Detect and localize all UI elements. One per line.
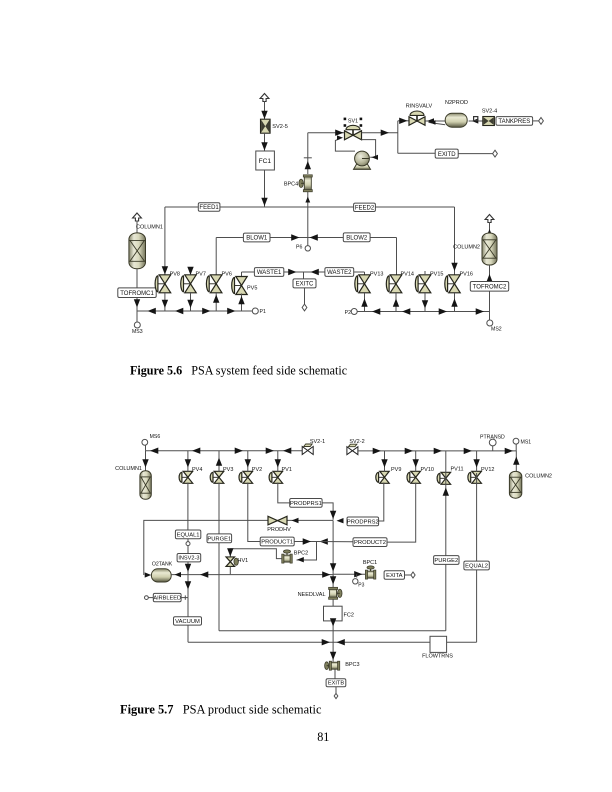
- stream label BLOW1: [243, 233, 270, 242]
- label COLUMN1: [136, 224, 163, 230]
- svg-text:COLUMN2: COLUMN2: [453, 244, 480, 250]
- svg-text:FC2: FC2: [344, 613, 354, 619]
- wire BPC4 riser (SV1 line down to P6): [304, 133, 312, 238]
- stream label EQUAL2: [464, 561, 489, 570]
- valve PV12: [468, 471, 482, 483]
- node MS1: [513, 438, 531, 451]
- wire PV12 from manifold: [473, 451, 479, 472]
- svg-text:PV8: PV8: [170, 271, 180, 277]
- valve HV1: [226, 557, 238, 567]
- svg-text:PRODPRS2: PRODPRS2: [347, 520, 379, 526]
- wire BLOW header: [216, 234, 396, 240]
- wire EQUAL1 to INSV2-3: [187, 546, 189, 554]
- caption Figure 5.7: [120, 703, 322, 717]
- node below EQUAL1: [186, 539, 190, 546]
- controller FC2: [324, 606, 354, 621]
- wire FEED drop to PV8: [162, 207, 168, 275]
- label PV7: [196, 271, 206, 277]
- stream label FEED2: [354, 203, 376, 211]
- wire AIRBLEED to leg: [181, 595, 188, 599]
- label SV2-2: [349, 439, 364, 445]
- wire PV13 to manifold: [361, 292, 367, 312]
- svg-text:MS3: MS3: [132, 329, 143, 335]
- svg-text:BPC1: BPC1: [363, 560, 377, 566]
- label NEEDLVAL: [298, 592, 326, 598]
- svg-text:BLOW1: BLOW1: [246, 236, 268, 242]
- wire FEED drop to PV16: [451, 207, 457, 275]
- wire WASTE stub to PV5: [241, 272, 243, 278]
- label PV13: [370, 271, 383, 277]
- label COLUMN1 (bottom): [115, 466, 142, 472]
- svg-text:PRODHV: PRODHV: [267, 527, 291, 533]
- node MS3: [132, 322, 143, 335]
- wire PRODUCT2 to junction: [317, 541, 354, 543]
- wire PRODUCT1 to junction: [294, 538, 328, 544]
- wire COLUMN2 riser (bottom): [513, 451, 519, 472]
- label PV2: [252, 467, 262, 473]
- svg-text:N2PROD: N2PROD: [445, 100, 468, 106]
- valve BPC1: [365, 566, 376, 579]
- page number: [317, 730, 329, 744]
- svg-text:BPC4: BPC4: [284, 181, 298, 187]
- svg-text:TANKPRES: TANKPRES: [498, 119, 530, 125]
- label PV6: [222, 271, 232, 277]
- wire WASTE stub to PV13: [364, 272, 366, 276]
- svg-text:PV1: PV1: [282, 467, 292, 473]
- wire PRODPRS1 to PRODHV junction: [322, 503, 336, 520]
- svg-text:PV9: PV9: [391, 467, 401, 473]
- wire riser junction at x=398: [397, 121, 399, 154]
- node P1: [252, 308, 266, 315]
- svg-text:PURGE2: PURGE2: [434, 558, 458, 564]
- wire PV16 to manifold: [451, 292, 457, 312]
- wire SV1 bypass loop and pump inlet: [335, 135, 378, 160]
- stream label PRODUCT1: [260, 537, 294, 546]
- wire equalization cross-link (to EQUAL2): [188, 641, 477, 643]
- label O2TANK: [152, 561, 173, 567]
- svg-text:FLOWTRNS: FLOWTRNS: [422, 654, 453, 660]
- svg-text:EXITD: EXITD: [438, 152, 456, 158]
- valve PRODHV: [268, 516, 299, 525]
- meter FLOWTRNS: [422, 636, 453, 659]
- svg-text:MS1: MS1: [521, 439, 532, 445]
- wire FEED header: [165, 206, 455, 208]
- wire COLUMN2 to TOFROMC2: [486, 265, 492, 282]
- label HV1: [238, 558, 249, 564]
- svg-text:81: 81: [317, 730, 329, 744]
- stream label PRODUCT2: [353, 538, 387, 547]
- valve SV2-4: [483, 117, 495, 126]
- svg-text:BPC2: BPC2: [294, 550, 308, 556]
- label RINSVALV: [406, 104, 433, 110]
- label PRODHV: [267, 527, 291, 533]
- svg-text:NEEDLVAL: NEEDLVAL: [298, 592, 326, 598]
- svg-text:MS2: MS2: [491, 327, 502, 333]
- wire EXITC outlet: [302, 288, 307, 311]
- svg-text:COLUMN2: COLUMN2: [525, 473, 552, 479]
- svg-text:PTRANSD: PTRANSD: [480, 435, 505, 441]
- valve SV2-2: [347, 444, 358, 455]
- svg-text:P1: P1: [260, 309, 266, 315]
- svg-text:O2TANK: O2TANK: [152, 561, 173, 567]
- stream label TOFROMC2: [470, 282, 508, 292]
- svg-text:P2: P2: [345, 310, 351, 316]
- node MS6: [142, 434, 160, 445]
- wire BPC3 to EXITB: [334, 670, 336, 679]
- wire TOFROMC2 to MS2: [489, 291, 491, 320]
- valve PV16: [445, 275, 460, 293]
- label PV16: [460, 271, 473, 277]
- column COLUMN2: [482, 233, 497, 265]
- svg-text:PV5: PV5: [247, 285, 257, 291]
- wire product line to BPC1: [333, 571, 366, 577]
- valve PV2: [239, 471, 253, 483]
- svg-text:EXITC: EXITC: [296, 282, 314, 288]
- column COLUMN1: [129, 233, 146, 269]
- label BPC4: [284, 181, 298, 187]
- wire PV14 to manifold: [393, 292, 399, 312]
- label PV9: [391, 467, 401, 473]
- wire WASTE header: [242, 269, 365, 275]
- wire BLOW drop to PV14: [396, 238, 398, 276]
- wire PV2 to PRODUCT1: [248, 483, 260, 542]
- wire BPC2 to HV1: [227, 548, 282, 558]
- wire COLUMN1 to TOFROMC1: [136, 269, 138, 288]
- controller FC1: [256, 151, 275, 170]
- wire NEEDLVAL to FC2: [332, 599, 334, 606]
- stream label EQUAL1: [175, 530, 200, 539]
- svg-text:TOFROMC1: TOFROMC1: [120, 291, 154, 297]
- pump (SV1 bypass): [354, 151, 371, 169]
- stream label EXITA: [384, 571, 404, 580]
- svg-text:PV14: PV14: [401, 271, 414, 277]
- label PV10: [421, 467, 434, 473]
- wire PV15 riser: [422, 271, 428, 312]
- label BPC1: [363, 560, 377, 566]
- svg-text:WASTE1: WASTE1: [257, 270, 282, 276]
- label PV12: [481, 467, 494, 473]
- wire EXITA outlet: [405, 572, 416, 578]
- wire PV8 to manifold: [162, 292, 168, 311]
- svg-text:EXITA: EXITA: [386, 573, 402, 579]
- label PV5: [247, 285, 257, 291]
- wire TOFROMC1 to MS3: [134, 298, 140, 323]
- node MS2: [487, 320, 502, 333]
- svg-text:BLOW2: BLOW2: [346, 236, 368, 242]
- column COLUMN2 (bottom): [509, 471, 521, 498]
- wire right bed manifold: [357, 308, 490, 314]
- svg-text:HV1: HV1: [238, 558, 249, 564]
- wire PV11 from manifold: [445, 451, 447, 473]
- wire PRODUCT2 to PV10: [387, 483, 416, 543]
- node AIRBLEED port: [145, 596, 154, 600]
- svg-text:AIRBLEED: AIRBLEED: [153, 596, 181, 602]
- wire EXITD line: [398, 152, 436, 154]
- stream label WASTE2: [325, 268, 354, 277]
- wire SV2-5 to FC1: [261, 133, 267, 151]
- svg-text:PV6: PV6: [222, 271, 232, 277]
- valve PV3: [210, 471, 224, 483]
- wire PV4 to EQUAL1: [187, 483, 189, 531]
- wire FC2 to exhaust junction: [330, 618, 336, 662]
- wire product manifold left: [146, 445, 303, 454]
- wire junction to PRODPRS2: [337, 518, 344, 523]
- wire EXITC branch: [303, 272, 305, 280]
- wire left bed manifold: [137, 308, 255, 314]
- valve PV13: [355, 275, 370, 293]
- valve PV7: [181, 275, 197, 293]
- valve PV14: [386, 275, 401, 293]
- stream label VACUUM: [174, 617, 202, 625]
- wire BLOW drop to PV6: [215, 238, 217, 276]
- label BPC3: [345, 662, 359, 668]
- wire exhaust junction arrows: [322, 639, 345, 645]
- svg-text:Figure 5.7 PSA product side s: Figure 5.7 PSA product side schematic: [120, 703, 322, 717]
- wire NEEDLVAL junction riser: [330, 520, 336, 574]
- wire SV1 outlet to right header: [362, 130, 398, 136]
- valve PV4: [179, 471, 193, 483]
- stream label PRODPRS2: [347, 517, 379, 526]
- svg-text:P6: P6: [296, 245, 302, 251]
- wire SV2-4 to N2PROD: [469, 117, 484, 124]
- wire PV9 from manifold: [381, 451, 387, 472]
- wire HV1 to product line: [229, 567, 231, 575]
- label BPC2: [294, 550, 308, 556]
- svg-text:VACUUM: VACUUM: [175, 619, 200, 625]
- svg-text:SV2-1: SV2-1: [310, 439, 325, 445]
- label PV14: [401, 271, 414, 277]
- wire RINSVALV feed line: [398, 118, 409, 124]
- svg-text:P3: P3: [358, 583, 364, 589]
- node P2: [345, 309, 358, 316]
- label PV4: [192, 467, 202, 473]
- wire PV6 to manifold: [213, 292, 219, 311]
- svg-text:FEED1: FEED1: [199, 205, 219, 211]
- wire product line to O2TANK: [171, 571, 333, 577]
- svg-text:PRODPRS1: PRODPRS1: [290, 501, 322, 507]
- tank O2TANK: [151, 569, 171, 582]
- valve PV10: [407, 471, 420, 483]
- svg-text:PURGE1: PURGE1: [207, 536, 231, 542]
- valve PV5: [232, 277, 248, 295]
- svg-text:INSV2-3: INSV2-3: [178, 556, 199, 562]
- label PV8: [170, 271, 180, 277]
- label PV3: [223, 467, 233, 473]
- valve PV9: [376, 471, 389, 483]
- svg-text:PRODUCT2: PRODUCT2: [354, 540, 386, 546]
- label PV11: [451, 466, 464, 472]
- stream label EXITC: [293, 279, 316, 288]
- svg-text:PV4: PV4: [192, 467, 202, 473]
- wire FC1 to FEED header: [261, 170, 267, 207]
- wire PV10 from manifold: [413, 451, 419, 472]
- instrument PTRANSD: [480, 435, 505, 451]
- wire PV4 from manifold: [185, 451, 191, 472]
- valve PV15: [415, 275, 430, 293]
- label COLUMN2 (top): [453, 244, 480, 250]
- svg-text:RINSVALV: RINSVALV: [406, 104, 433, 110]
- wire PV1 from manifold: [275, 451, 281, 472]
- wire PV3 to manifold: [216, 451, 222, 472]
- wire TANKPRES outlet: [533, 118, 544, 125]
- wire NEEDLVAL drop: [330, 574, 336, 587]
- svg-text:COLUMN1: COLUMN1: [115, 466, 142, 472]
- stream label EXITD: [435, 149, 458, 158]
- svg-text:PV10: PV10: [421, 467, 434, 473]
- wire EXITB outlet: [334, 687, 338, 699]
- stream label PURGE1: [207, 534, 232, 543]
- stream label FEED1: [198, 203, 220, 211]
- valve BPC2: [282, 550, 293, 563]
- valve PV11: [437, 472, 451, 484]
- stream label BLOW2: [343, 233, 370, 242]
- svg-text:SV1: SV1: [348, 119, 358, 125]
- wire N2PROD to RINSVALV: [426, 118, 446, 125]
- wire PV3 to PURGE1: [218, 483, 220, 535]
- wire EXITD outlet: [458, 150, 497, 157]
- wire PURGE2 riser: [443, 473, 449, 631]
- valve PV8: [155, 275, 171, 293]
- label SV2-1: [310, 439, 325, 445]
- label SV1: [348, 119, 358, 125]
- column COLUMN2 outlet arrow: [485, 215, 494, 236]
- wire SV1 inlet line: [308, 130, 344, 136]
- label SV2-4: [482, 108, 497, 114]
- wire O2TANK inlet left: [145, 572, 152, 577]
- valve PV6: [206, 275, 222, 293]
- node P3: [353, 574, 365, 588]
- wire EQUAL1 leg to VACUUM: [185, 574, 191, 642]
- svg-text:PV13: PV13: [370, 271, 383, 277]
- stream label WASTE1: [254, 268, 283, 277]
- stream label INSV2-3: [177, 554, 201, 562]
- node P6: [296, 238, 310, 252]
- stream label TOFROMC1: [118, 288, 156, 298]
- stream label PURGE2: [434, 556, 459, 565]
- valve NEEDLVAL: [329, 587, 342, 599]
- svg-text:EXITB: EXITB: [328, 681, 344, 687]
- svg-text:PV11: PV11: [451, 466, 464, 472]
- stream label TANKPRES: [496, 117, 533, 126]
- svg-text:SV2-2: SV2-2: [349, 439, 364, 445]
- svg-text:FC1: FC1: [259, 158, 272, 165]
- label PV15: [430, 271, 443, 277]
- wire PV5 to manifold: [238, 294, 244, 312]
- valve SV1 (control valve with selection handles): [344, 118, 363, 140]
- valve PV1: [269, 471, 283, 483]
- stream label AIRBLEED: [153, 593, 181, 601]
- valve SV2-1: [302, 444, 313, 455]
- wire BPC2 branch: [297, 542, 317, 563]
- caption Figure 5.6: [130, 364, 347, 378]
- wire PRODPRS2 to PV9: [379, 483, 384, 522]
- wire feed inlet into SV2-5: [260, 94, 269, 120]
- svg-text:PV12: PV12: [481, 467, 494, 473]
- svg-text:EQUAL2: EQUAL2: [465, 564, 488, 570]
- wire PV2 from manifold: [245, 451, 251, 472]
- svg-text:BPC3: BPC3: [345, 662, 359, 668]
- label COLUMN2 (bottom): [525, 473, 552, 479]
- column COLUMN1 inlet arrow: [133, 213, 142, 233]
- label PV1: [282, 467, 292, 473]
- wire manifold drop to COLUMN1: [142, 451, 148, 471]
- svg-text:Figure 5.6 PSA system feed si: Figure 5.6 PSA system feed side schemati…: [130, 364, 347, 378]
- stream label EXITB: [326, 679, 346, 687]
- wire purge cross-link (PURGE1 to PURGE2): [219, 630, 446, 632]
- label N2PROD: [445, 100, 468, 106]
- svg-text:WASTE2: WASTE2: [327, 270, 352, 276]
- valve BPC3: [325, 661, 340, 670]
- wire INSV2-3 to product line: [185, 562, 191, 574]
- svg-text:PV2: PV2: [252, 467, 262, 473]
- svg-text:SV2-4: SV2-4: [482, 108, 497, 114]
- wire PV1 to PRODPRS1: [278, 483, 290, 503]
- valve BPC4: [299, 175, 312, 192]
- svg-text:PV3: PV3: [223, 467, 233, 473]
- wire EQUAL2 riser: [476, 473, 478, 642]
- valve RINSVALV: [409, 111, 425, 125]
- svg-text:COLUMN1: COLUMN1: [136, 224, 163, 230]
- svg-text:TOFROMC2: TOFROMC2: [473, 285, 507, 291]
- wire PV7 riser: [187, 267, 193, 311]
- svg-text:MS6: MS6: [150, 434, 161, 440]
- svg-text:FEED2: FEED2: [355, 206, 375, 212]
- wire product manifold right: [358, 448, 516, 454]
- wire PURGE1 down-leg: [218, 543, 220, 631]
- stream label PRODPRS1: [290, 499, 322, 508]
- svg-text:PRODUCT1: PRODUCT1: [261, 540, 293, 546]
- svg-text:PV7: PV7: [196, 271, 206, 277]
- svg-text:PV15: PV15: [430, 271, 443, 277]
- column COLUMN1 (bottom): [140, 471, 151, 500]
- svg-text:EQUAL1: EQUAL1: [177, 533, 200, 539]
- wire PRODHV header from O2TANK loop: [144, 520, 333, 575]
- svg-text:PV16: PV16: [460, 271, 473, 277]
- svg-text:SV2-5: SV2-5: [272, 124, 288, 130]
- label SV2-5: [272, 124, 288, 130]
- tank N2PROD: [445, 113, 467, 127]
- valve SV2-5: [261, 119, 271, 133]
